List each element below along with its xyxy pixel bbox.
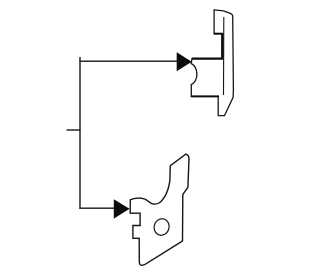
lower bracket outline <box>130 154 189 265</box>
arrow to upper bracket <box>177 52 192 71</box>
upper bracket thick bottom edge <box>191 95 219 97</box>
upper bracket outline <box>191 10 233 116</box>
callout tick mark <box>67 129 81 131</box>
callout vertical line <box>79 57 81 209</box>
callout top horizontal line <box>79 60 177 62</box>
callout bottom horizontal line <box>79 207 114 209</box>
upper bracket fold line <box>223 17 225 95</box>
lower bracket hole <box>152 217 171 237</box>
upper bracket thick step edge <box>214 33 223 35</box>
upper bracket thick top edge <box>192 57 223 59</box>
arrow to lower bracket <box>114 199 130 218</box>
upper bracket thick vertical edge <box>221 33 223 59</box>
